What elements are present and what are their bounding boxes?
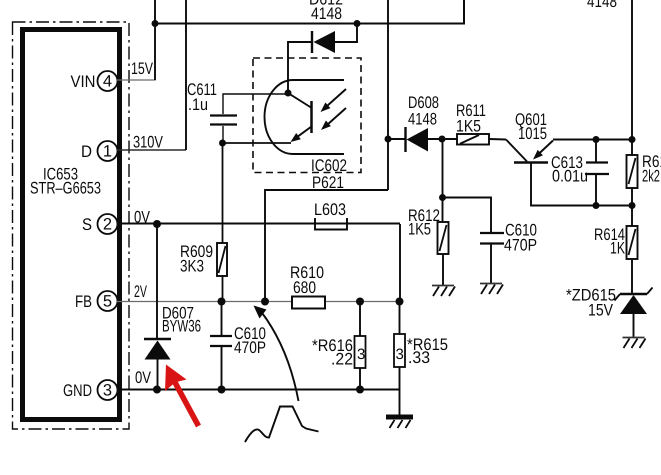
wire right rail top with 4148 label [587, 0, 632, 155]
svg-text:0V: 0V [134, 208, 151, 227]
node C610 GND junction [218, 386, 226, 394]
waveform squiggle [245, 407, 319, 443]
svg-text:.22: .22 [331, 350, 353, 369]
svg-text:470P: 470P [504, 236, 537, 255]
resistor R613 2k2 [627, 152, 661, 226]
svg-text:1: 1 [103, 143, 112, 161]
svg-text:4148: 4148 [587, 0, 617, 11]
node collector rail right junction [629, 202, 636, 209]
svg-text:680: 680 [293, 278, 316, 297]
wire L603 rail drop to FB node [399, 224, 401, 302]
wire 15V vertical riser [154, 0, 156, 80]
svg-text:FB: FB [75, 292, 92, 311]
node opto collector junction [285, 90, 292, 97]
pin VIN 4 [71, 71, 118, 91]
diode D607 BYW36 [144, 224, 201, 390]
optocoupler IC602 P621 dashed box [253, 58, 361, 192]
node S rail / D607 junction [153, 220, 161, 228]
IC653 module dash-dot border [13, 22, 130, 429]
svg-text:2V: 2V [134, 282, 148, 301]
red annotation arrow [165, 365, 199, 427]
IC IC653 STR-G6653 thick box [23, 30, 120, 420]
node 15V junction [152, 20, 159, 27]
resistor R611 1K5 [456, 101, 506, 145]
wire pin1 310V [117, 0, 186, 152]
svg-text:2k2: 2k2 [642, 167, 660, 186]
svg-text:L603: L603 [314, 200, 346, 219]
ground R612 [432, 286, 455, 297]
light arrow 2 [321, 108, 346, 130]
diode D612 4148 [288, 0, 357, 93]
wire feedback branch from D608 node [265, 0, 388, 302]
node FB/opto branch junction [261, 298, 269, 306]
capacitor C610 470P (right) [443, 198, 538, 284]
svg-text:2: 2 [103, 216, 112, 234]
wire pin4 to 15V riser [117, 59, 156, 80]
node D612 branch junction [354, 20, 361, 27]
svg-text:15V: 15V [588, 301, 614, 320]
node D608 cathode junction [385, 136, 392, 143]
capacitor C613 0.01u [551, 136, 609, 209]
curved annotation arrow [254, 306, 299, 402]
capacitor C610 470P (left) [210, 302, 266, 390]
diode D608 4148 [388, 93, 457, 152]
svg-text:4148: 4148 [311, 4, 342, 23]
svg-text:1K5: 1K5 [408, 220, 431, 239]
resistor R614 1K [594, 225, 638, 294]
wire GND rail [117, 368, 399, 390]
resistor R610 680 [290, 263, 325, 309]
ground C610 right [480, 284, 503, 295]
svg-text:VIN: VIN [71, 72, 96, 91]
pin S 2 [82, 214, 118, 234]
wire emitter lead of opto [223, 142, 292, 144]
node D607 GND junction [153, 386, 161, 394]
wire FB rail 2V [117, 282, 400, 302]
optocoupler phototransistor shell [265, 80, 345, 154]
resistor R616 .22 3W [312, 298, 366, 394]
node emitter rail right junction [629, 136, 636, 143]
pin GND 3 [63, 380, 118, 400]
svg-text:1K: 1K [610, 239, 625, 258]
resistor R609 3K3 [180, 143, 227, 302]
svg-text:3: 3 [357, 346, 365, 363]
svg-text:470P: 470P [234, 338, 266, 357]
svg-text:0.01u: 0.01u [552, 167, 588, 186]
svg-text:3: 3 [396, 346, 404, 363]
inductor L603 [314, 200, 347, 230]
node C611 bottom junction [219, 140, 226, 147]
svg-text:S: S [82, 215, 92, 234]
svg-text:BYW36: BYW36 [162, 317, 201, 336]
svg-text:310V: 310V [133, 133, 164, 152]
ground R615 thick [386, 417, 413, 428]
transistor Q601 1015 [506, 110, 632, 206]
zener ZD615 15V [566, 286, 653, 338]
svg-text:5: 5 [103, 293, 112, 311]
svg-text:4148: 4148 [408, 110, 437, 129]
svg-text:15V: 15V [131, 59, 154, 78]
svg-text:0V: 0V [135, 368, 152, 387]
capacitor C611 [187, 80, 288, 143]
pin FB 5 [75, 291, 118, 311]
ground ZD615 [623, 338, 646, 349]
node D608 anode junction [439, 136, 446, 143]
pin D 1 [81, 141, 118, 161]
svg-text:.33: .33 [408, 348, 430, 367]
svg-text:.1u: .1u [188, 95, 208, 114]
svg-text:3: 3 [103, 382, 112, 400]
resistor R615 .33 3W [394, 298, 448, 415]
light arrow 1 [321, 89, 347, 112]
svg-text:GND: GND [63, 381, 92, 400]
resistor R612 1K5 [408, 139, 449, 285]
svg-text:1K5: 1K5 [456, 117, 481, 136]
svg-text:3K3: 3K3 [180, 257, 204, 276]
svg-text:D: D [81, 142, 92, 161]
wire S rail 0V [117, 208, 400, 227]
svg-text:4: 4 [103, 73, 112, 91]
wire top rail [155, 0, 464, 24]
svg-text:1015: 1015 [518, 124, 547, 143]
svg-text:STR–G6653: STR–G6653 [30, 179, 101, 198]
node R609/C610 FB junction [218, 298, 226, 306]
transistor inside opto [288, 93, 312, 142]
